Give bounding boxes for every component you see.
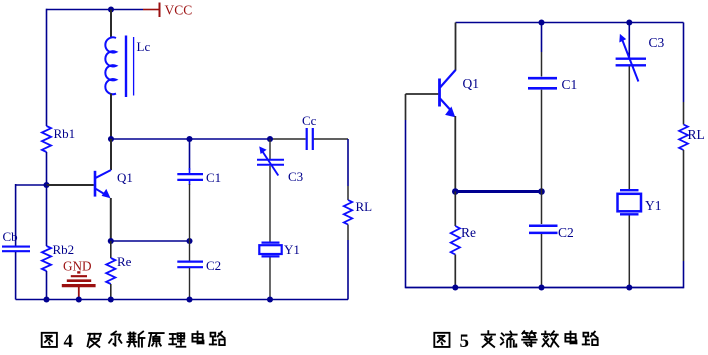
crystal Y1 body (fig5)	[618, 194, 642, 212]
wire: bottom rail (fig5)	[406, 287, 684, 289]
svg-text:Cc: Cc	[302, 113, 317, 128]
resistor Rb1	[42, 126, 51, 152]
transistor Q1 emitter diagonal	[96, 189, 107, 196]
wire: Cc to right corner (black)	[314, 138, 349, 140]
svg-text:C2: C2	[558, 225, 574, 240]
wire: Rb2 top lead	[46, 185, 48, 246]
caption fig4: 皮尔斯原理电路	[88, 334, 101, 347]
capacitor C2 stem bottom (fig4)	[189, 268, 191, 300]
capacitor C2 stem top (fig5)	[541, 192, 543, 225]
wire: RL bottom to rail (fig4)	[347, 240, 349, 300]
wire: base node to Q1 base (black)	[47, 184, 94, 186]
node: emitter junction	[108, 238, 114, 244]
node: C1C2 junction	[186, 238, 192, 244]
node: C1C2 junction (fig5)	[538, 188, 545, 195]
wire: emitter junction thick link (fig5)	[455, 190, 541, 193]
crystal Y1 plates (fig4)	[262, 242, 280, 244]
wire: top rail (fig5)	[456, 22, 684, 24]
caption fig4: 图	[42, 333, 57, 347]
wire: Re top lead (black)	[110, 241, 112, 258]
capacitor C1 plates (fig5)	[528, 77, 557, 80]
inductor Lc lead (black)	[110, 10, 112, 39]
inductor Lc core bars	[125, 36, 127, 98]
wire: base lead left (fig5, black)	[406, 93, 439, 95]
transistor Q1 collector diagonal	[96, 170, 111, 178]
resistor Re (fig5)	[451, 226, 460, 255]
wire: emitter down (black)	[110, 198, 112, 241]
wire: mid rail C3 to Cc (black)	[270, 138, 306, 140]
svg-text:C2: C2	[206, 258, 221, 273]
wire: right edge top segment (fig5)	[683, 23, 685, 103]
svg-text:C3: C3	[649, 35, 665, 50]
svg-text:Rb2: Rb2	[53, 242, 75, 257]
svg-text:Y1: Y1	[284, 242, 300, 257]
svg-text:4: 4	[64, 331, 74, 352]
capacitor C1 stem bottom (black)	[189, 181, 191, 185]
wire: collector vertical (fig5, black)	[455, 23, 457, 71]
wire: emitter vertical (fig5, black)	[454, 116, 456, 192]
wire: base node to Cb branch	[16, 184, 47, 186]
wire: RL bottom lead (fig4, black)	[347, 225, 349, 241]
wire: Re bottom lead (fig5, black)	[454, 255, 456, 288]
capacitor C1 stem bottom (fig5)	[541, 90, 543, 192]
node: Y1 bottom	[267, 296, 273, 302]
svg-text:C1: C1	[562, 77, 578, 92]
svg-text:VCC: VCC	[165, 3, 193, 18]
svg-text:Rb1: Rb1	[54, 126, 76, 141]
capacitor C2 plates (fig4)	[177, 261, 203, 263]
node: Y1 bottom (fig5)	[626, 284, 632, 290]
node: Re bottom	[108, 296, 114, 302]
capacitor C1 stem top (fig5)	[541, 23, 543, 53]
node: ground on bottom rail	[76, 296, 82, 302]
capacitor C1 stem top	[189, 139, 191, 170]
svg-text:Y1: Y1	[645, 198, 662, 213]
wire: C3 to Y1 (fig4)	[269, 166, 271, 242]
node: C2 bottom	[186, 296, 192, 302]
variable capacitor C3 arrow (fig4)	[263, 152, 279, 176]
crystal Y1 body (fig4)	[259, 245, 281, 254]
wire: C3 to Y1 (fig5, black)	[628, 66, 630, 189]
wire: left edge down (fig5)	[405, 94, 407, 120]
wire: top rail left (to VCC)	[47, 9, 144, 11]
power VCC bar symbol	[159, 3, 161, 18]
wire: Rb1 to base node	[46, 152, 48, 185]
resistor Rb2	[42, 246, 51, 271]
wire: RL bottom lead (fig5, black)	[683, 150, 685, 261]
svg-text:Q1: Q1	[117, 170, 133, 185]
node: C3 top (fig5)	[626, 19, 632, 25]
svg-text:Re: Re	[117, 254, 132, 269]
transistor Q1 emitter arrow	[102, 189, 111, 198]
capacitor C2 stem top (fig4)	[189, 241, 191, 261]
wire: left vertical from top rail to Rb1	[46, 9, 48, 126]
capacitor C1 plates (fig4)	[177, 173, 203, 175]
svg-text:Cb: Cb	[3, 229, 18, 244]
transistor Q1 emitter diagonal (fig5)	[440, 99, 450, 110]
crystal Y1 plates (fig5)	[620, 189, 639, 191]
wire: Re top lead (fig5, black)	[454, 192, 456, 227]
capacitor Cb stem bottom	[15, 252, 17, 300]
capacitor C2 stem bottom (fig5)	[541, 234, 543, 288]
wire: RL top lead (fig4, black)	[347, 186, 349, 200]
capacitor Cb stem top	[15, 184, 17, 246]
variable capacitor C3 arrow (fig5)	[623, 41, 639, 82]
node: emitter junction (fig5)	[452, 188, 459, 195]
wire: Rb2 bottom lead	[46, 271, 48, 300]
wire: bottom rail (fig4)	[16, 299, 348, 301]
wire: Y1 to bottom rail (fig4)	[269, 258, 271, 300]
node: C1 top (fig4)	[186, 136, 192, 142]
variable capacitor C3 stem (fig4)	[269, 139, 271, 159]
node: C3 top (fig4)	[267, 136, 273, 142]
svg-text:C3: C3	[288, 169, 303, 184]
wire: right branch vertical (fig4)	[347, 139, 349, 186]
node: C1 top (fig5)	[538, 19, 544, 25]
capacitor Cb plates	[2, 246, 30, 248]
ground symbol (earth bars)	[77, 271, 80, 273]
inductor Lc coil	[105, 37, 116, 94]
svg-text:RL: RL	[356, 199, 373, 214]
inductor bottom lead (black)	[110, 94, 112, 140]
wire: Y1 bottom lead (fig5, black)	[628, 216, 630, 288]
transistor Q1 emitter arrow (fig5)	[445, 107, 455, 118]
svg-text:RL: RL	[688, 127, 705, 142]
resistor Re (fig4)	[106, 258, 115, 284]
svg-text:C1: C1	[206, 170, 221, 185]
svg-text:Q1: Q1	[463, 76, 480, 91]
node: collector rail / VCC junction	[108, 6, 114, 12]
node: Re bottom (fig5)	[452, 284, 458, 290]
wire: Re bottom lead (black)	[110, 284, 112, 300]
capacitor C2 plates (fig5)	[529, 224, 558, 227]
transistor Q1 collector diagonal (fig5)	[440, 70, 456, 88]
wire: emitter to C1C2 junction	[111, 240, 190, 242]
power VCC lead	[143, 9, 159, 11]
node: C2 bottom (fig5)	[538, 284, 544, 290]
caption fig5: 图	[434, 333, 449, 347]
node: collector junction	[108, 136, 114, 142]
wire: collector down (black)	[110, 139, 112, 170]
transistor Q1 base bar	[94, 171, 97, 197]
capacitor Cc plates	[306, 128, 308, 150]
caption fig5: 交流等效电路	[482, 331, 495, 347]
resistor RL (fig4)	[344, 200, 352, 224]
variable capacitor C3 plates (fig5)	[616, 58, 646, 60]
transistor Q1 base bar (fig5)	[438, 79, 441, 107]
svg-text:Lc: Lc	[137, 39, 151, 54]
node: Rb2 bottom	[43, 296, 49, 302]
ground stem wire	[78, 287, 80, 300]
svg-text:Re: Re	[461, 225, 476, 240]
resistor RL (fig5)	[679, 125, 688, 151]
wire: RL top lead (fig5, black)	[683, 102, 685, 125]
variable capacitor C3 plates (fig4)	[257, 159, 284, 161]
node: base junction	[43, 182, 49, 188]
wire: mid rail to C1/C3	[111, 138, 270, 140]
svg-text:5: 5	[460, 331, 470, 352]
variable capacitor C3 stem top (fig5)	[628, 23, 630, 58]
wire: right edge bottom segment (fig5)	[683, 261, 685, 288]
